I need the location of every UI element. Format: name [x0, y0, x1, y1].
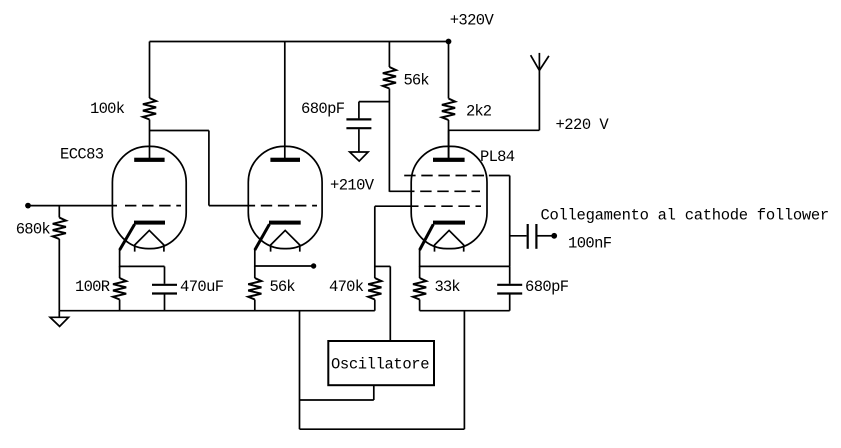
svg-text:Collegamento al cathode follow: Collegamento al cathode follower — [541, 207, 830, 225]
svg-text:2k2: 2k2 — [466, 103, 492, 121]
svg-text:680k: 680k — [16, 221, 51, 239]
svg-text:680pF: 680pF — [525, 278, 569, 296]
svg-text:680pF: 680pF — [301, 100, 345, 118]
svg-text:PL84: PL84 — [480, 148, 515, 166]
svg-text:+210V: +210V — [330, 177, 375, 195]
svg-text:+320V: +320V — [450, 11, 495, 29]
svg-text:100k: 100k — [90, 100, 125, 118]
svg-text:56k: 56k — [270, 278, 296, 296]
svg-text:100nF: 100nF — [568, 235, 612, 253]
svg-text:33k: 33k — [435, 278, 461, 296]
svg-text:Oscillatore: Oscillatore — [331, 356, 430, 374]
svg-text:+220 V: +220 V — [556, 116, 610, 134]
svg-text:56k: 56k — [404, 71, 430, 89]
svg-text:ECC83: ECC83 — [60, 145, 104, 163]
svg-text:100R: 100R — [75, 278, 110, 296]
svg-text:470k: 470k — [329, 278, 364, 296]
svg-text:470uF: 470uF — [180, 278, 224, 296]
